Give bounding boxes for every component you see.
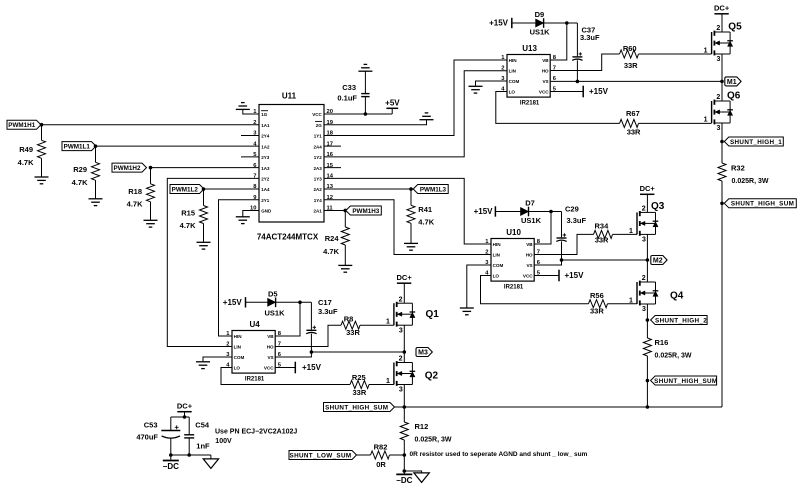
- svg-text:Use PN ECJ−2VC2A102J: Use PN ECJ−2VC2A102J: [215, 429, 297, 436]
- wire U10 COM to ground: [467, 265, 491, 308]
- junction C54 bottom: [187, 453, 191, 457]
- svg-text:R41: R41: [418, 205, 432, 214]
- wire to U4 VB: [275, 302, 300, 336]
- wire R60 to Q5 gate: [639, 53, 712, 55]
- svg-text:LIN: LIN: [493, 253, 501, 258]
- wire tag to R82: [357, 454, 371, 456]
- svg-text:−DC: −DC: [163, 462, 179, 471]
- svg-text:1A3: 1A3: [261, 166, 270, 171]
- ground (U4 COM): [196, 362, 210, 369]
- resistor R12 0.025R 3W: [400, 422, 408, 440]
- svg-text:+15V: +15V: [565, 271, 585, 280]
- wire U11 pin16 1Y2 to U13 LIN: [324, 71, 507, 157]
- svg-text:470uF: 470uF: [136, 432, 158, 441]
- svg-text:U13: U13: [522, 44, 537, 53]
- svg-text:LIN: LIN: [509, 69, 517, 74]
- svg-text:COM: COM: [493, 263, 504, 268]
- power +15V (U10 VCC): [558, 270, 560, 282]
- junction SHUNT_HIGH_SUM mid: [646, 379, 650, 383]
- wire to U13 VB: [551, 23, 567, 60]
- svg-text:4.7K: 4.7K: [72, 178, 88, 187]
- wire U4 HO to R8: [275, 325, 341, 346]
- svg-text:2: 2: [399, 296, 403, 303]
- wire U4 VCC: [275, 367, 295, 369]
- wire D7 to C29: [529, 211, 562, 213]
- wire: [344, 210, 346, 227]
- net tag PWM1H1: [7, 120, 41, 129]
- junction VB node U4: [298, 301, 302, 305]
- svg-text:2A1: 2A1: [314, 209, 323, 214]
- svg-text:DC+: DC+: [177, 402, 193, 411]
- wire: [344, 245, 346, 265]
- svg-text:R56: R56: [590, 291, 604, 300]
- wire U11 pin14 1Y3 to U10 HIN: [324, 178, 491, 244]
- svg-text:IR2181: IR2181: [504, 284, 524, 290]
- svg-text:PWM1H3: PWM1H3: [352, 208, 379, 215]
- svg-text:SHUNT_HIGH_2: SHUNT_HIGH_2: [655, 317, 707, 324]
- svg-text:IR2181: IR2181: [245, 376, 265, 382]
- resistor R82 0R: [371, 451, 390, 459]
- svg-text:1: 1: [386, 319, 390, 326]
- svg-text:1: 1: [704, 116, 708, 123]
- resistor R32 0.025R 3W: [718, 163, 726, 181]
- svg-text:Q3: Q3: [651, 201, 665, 212]
- svg-text:2Y1: 2Y1: [261, 198, 270, 203]
- svg-text:2: 2: [226, 342, 229, 348]
- svg-text:2: 2: [716, 25, 720, 32]
- svg-text:R82: R82: [374, 442, 388, 451]
- svg-text:C53: C53: [144, 420, 158, 429]
- junction C53 bottom: [169, 453, 173, 457]
- wire +15V to D5: [246, 301, 268, 303]
- resistor R67 33R: [620, 119, 639, 127]
- wire M2 to Q4 drain: [646, 260, 648, 282]
- wire: [403, 440, 405, 455]
- svg-text:GND: GND: [261, 209, 272, 214]
- svg-text:SHUNT_LOW_SUM: SHUNT_LOW_SUM: [290, 452, 352, 459]
- junction C17/VS: [310, 350, 314, 354]
- junction PWM1H3/R24: [344, 209, 348, 213]
- wire U11 pin7 2Y2 to U4 LIN: [167, 178, 259, 346]
- svg-text:4.7K: 4.7K: [18, 158, 34, 167]
- wire: [184, 412, 186, 417]
- svg-text:PWM1L1: PWM1L1: [64, 143, 91, 150]
- wire pin3 stub 2Y4: [241, 134, 259, 136]
- resistor R60 33R: [620, 50, 639, 58]
- capacitor C33 0.1uF: [364, 97, 366, 114]
- gate driver U4 (IR2181): [232, 331, 275, 374]
- svg-text:3.3uF: 3.3uF: [567, 216, 587, 225]
- svg-text:4.7K: 4.7K: [323, 247, 339, 256]
- ground (triangle, C54): [203, 459, 218, 469]
- svg-text:DC+: DC+: [396, 273, 412, 282]
- net tag SHUNT_HIGH_2: [651, 316, 708, 325]
- wire U13 COM to ground: [476, 81, 508, 86]
- wire U4 LO to R25: [221, 368, 350, 385]
- svg-text:+15V: +15V: [302, 363, 322, 372]
- svg-text:1A1: 1A1: [261, 123, 270, 128]
- junction R12/R82: [403, 453, 407, 457]
- net tag PWM1H3: [346, 206, 382, 215]
- power +5V: [391, 108, 393, 114]
- capacitor C17 3.3uF: [306, 329, 316, 331]
- wire R25 to Q2 gate: [369, 384, 394, 386]
- wire R34 to Q3 gate: [613, 233, 638, 235]
- wire: [95, 180, 97, 198]
- svg-text:1Y3: 1Y3: [314, 177, 323, 182]
- svg-text:33R: 33R: [353, 388, 367, 397]
- svg-text:HIN: HIN: [234, 334, 243, 339]
- svg-text:VCC: VCC: [264, 366, 274, 371]
- wire: [403, 407, 405, 422]
- wire to analog ground: [404, 471, 421, 473]
- svg-text:HO: HO: [526, 253, 533, 258]
- wire: [561, 212, 563, 238]
- svg-text:33R: 33R: [595, 236, 609, 245]
- svg-text:100V: 100V: [215, 438, 232, 445]
- ground (R24): [338, 265, 352, 272]
- svg-text:LO: LO: [509, 90, 516, 95]
- svg-text:1A2: 1A2: [261, 144, 270, 149]
- overbar on 1G: [261, 110, 268, 112]
- svg-text:2: 2: [642, 206, 646, 213]
- svg-text:3: 3: [399, 387, 403, 394]
- wire M3 to Q2 drain: [403, 352, 405, 363]
- wire: [403, 455, 405, 471]
- svg-text:2A3: 2A3: [314, 166, 323, 171]
- svg-text:U4: U4: [249, 320, 260, 329]
- wire PWM1H2 to U11 pin6: [151, 167, 260, 169]
- svg-text:Q5: Q5: [728, 22, 742, 33]
- svg-text:LO: LO: [493, 274, 500, 279]
- gate driver U10 (IR2181): [491, 239, 534, 282]
- wire U10 HO to R34: [534, 234, 593, 254]
- svg-text:3: 3: [642, 306, 646, 313]
- ground (R41): [404, 243, 418, 250]
- svg-text:2: 2: [399, 356, 403, 363]
- wire PWM1L2 to U11 pin8: [204, 188, 260, 190]
- svg-text:US1K: US1K: [530, 28, 551, 37]
- gate driver U13 (IR2181): [507, 55, 550, 98]
- wire U13 VCC: [551, 91, 584, 93]
- wire +15V to D7: [495, 211, 520, 213]
- junction SHUNT_HIGH_SUM right: [720, 202, 724, 206]
- wire pin5 stub 2Y3: [241, 156, 259, 158]
- wire DC+ to Q3 drain: [646, 194, 648, 212]
- svg-text:VCC: VCC: [523, 274, 533, 279]
- ground (R18): [144, 220, 158, 227]
- svg-text:0.025R, 3W: 0.025R, 3W: [732, 178, 769, 185]
- svg-text:C17: C17: [318, 298, 332, 307]
- power +15V (D5): [245, 297, 247, 307]
- wire: [410, 189, 412, 205]
- net tag PWM1L1: [62, 142, 96, 151]
- svg-text:VCC: VCC: [539, 90, 549, 95]
- ground (pin 10 GND): [236, 217, 250, 224]
- wire: [210, 455, 212, 459]
- svg-text:33R: 33R: [346, 328, 360, 337]
- wire U13 LO to R67: [496, 92, 620, 124]
- wire Q6 source: [721, 123, 723, 142]
- svg-text:PWM1H2: PWM1H2: [114, 165, 141, 172]
- svg-text:1: 1: [629, 297, 633, 304]
- svg-text:3.3uF: 3.3uF: [318, 307, 338, 316]
- svg-text:3: 3: [717, 125, 721, 132]
- svg-text:PWM1H1: PWM1H1: [8, 122, 35, 129]
- net tag PWM1L2: [170, 185, 204, 194]
- junction rail: [646, 405, 650, 409]
- power -DC (C53): [163, 460, 179, 462]
- net tag SHUNT_HIGH_SUM: [324, 403, 395, 412]
- svg-text:2A4: 2A4: [314, 144, 323, 149]
- wire R56 to Q4 gate: [608, 303, 638, 305]
- svg-text:D5: D5: [268, 289, 278, 298]
- svg-text:R8: R8: [344, 314, 354, 323]
- wire Q4 chain to rail: [646, 381, 648, 408]
- svg-text:HO: HO: [542, 69, 549, 74]
- wire cap top bus: [171, 416, 189, 418]
- svg-text:1Y4: 1Y4: [314, 198, 323, 203]
- ground (triangle AGND): [414, 473, 429, 483]
- wire: [576, 23, 578, 56]
- resistor R16 0.025R 3W: [643, 338, 651, 356]
- svg-text:M3: M3: [418, 349, 428, 356]
- svg-text:C33: C33: [342, 83, 356, 92]
- power +15V (D7): [494, 206, 496, 216]
- svg-text:U11: U11: [282, 92, 297, 101]
- wire: [721, 142, 723, 164]
- svg-text:VS: VS: [542, 79, 548, 84]
- wire: [150, 168, 152, 184]
- svg-text:HO: HO: [267, 345, 274, 350]
- wire +15V to D9: [512, 22, 536, 24]
- wire R67 to Q6 gate: [639, 122, 712, 124]
- svg-text:R32: R32: [731, 164, 745, 173]
- svg-text:0R: 0R: [376, 460, 386, 469]
- svg-text:2Y2: 2Y2: [261, 177, 270, 182]
- wire Q2 source to rail: [403, 385, 405, 408]
- svg-text:+15V: +15V: [489, 19, 509, 28]
- power DC+ (Q3): [640, 193, 654, 195]
- svg-text:R49: R49: [19, 145, 33, 154]
- wire: [95, 146, 97, 162]
- svg-text:4.7K: 4.7K: [418, 218, 434, 227]
- junction PWM1H1/R49: [40, 123, 44, 127]
- capacitor C37 3.3uF: [572, 56, 582, 58]
- transistor Q6: [712, 100, 733, 125]
- net tag SHUNT_LOW_SUM: [289, 451, 357, 460]
- wire pin1 to ground: [243, 109, 259, 114]
- svg-text:3: 3: [399, 327, 403, 334]
- svg-text:2Y4: 2Y4: [261, 134, 270, 139]
- wire: [646, 320, 648, 338]
- svg-text:DC+: DC+: [640, 184, 656, 193]
- junction PWM1L3/R41: [409, 187, 413, 191]
- wire U11 pin18 1Y1 to U13 HIN: [324, 60, 507, 135]
- resistor R18 4.7K: [147, 184, 155, 202]
- wire VS to M3 node: [311, 351, 404, 353]
- wire Q1 source to M3: [403, 325, 405, 352]
- svg-text:M1: M1: [727, 79, 737, 86]
- junction C37/VS: [576, 80, 580, 84]
- power +15V (U13 VCC): [582, 86, 584, 98]
- svg-text:IR2181: IR2181: [520, 100, 540, 106]
- svg-text:−DC: −DC: [396, 476, 412, 485]
- svg-text:Q2: Q2: [425, 371, 439, 382]
- net tag SHUNT_HIGH_SUM: [724, 199, 796, 208]
- svg-text:Q4: Q4: [670, 290, 684, 301]
- wire M1 to Q6 drain: [721, 81, 723, 101]
- svg-text:U10: U10: [506, 228, 521, 237]
- wire D5 to C17: [276, 301, 312, 303]
- wire: [41, 158, 43, 176]
- wire U10 VCC: [534, 275, 559, 277]
- svg-text:HIN: HIN: [493, 242, 502, 247]
- svg-text:R12: R12: [415, 422, 429, 431]
- svg-text:VB: VB: [267, 334, 274, 339]
- ground (R15): [197, 242, 211, 249]
- resistor R49 4.7K: [38, 140, 46, 158]
- svg-text:0.025R, 3W: 0.025R, 3W: [415, 436, 452, 443]
- ground (pin 19): [420, 113, 434, 120]
- junction VB node: [565, 21, 569, 25]
- wire PWM1L1 to U11 pin4: [96, 145, 260, 147]
- junction DC+ top: [183, 415, 187, 419]
- capacitor C54 1nF: [188, 417, 190, 435]
- svg-text:D9: D9: [535, 10, 545, 19]
- ground (U10 COM): [460, 308, 474, 315]
- wire: [310, 302, 312, 329]
- wire: [203, 224, 205, 242]
- net tag M1: [725, 77, 741, 86]
- resistor R56 33R: [589, 300, 608, 308]
- wire pin15 stub 2A3: [324, 167, 341, 169]
- svg-text:1: 1: [386, 378, 390, 385]
- ground (R29): [89, 199, 103, 206]
- svg-text:2Y3: 2Y3: [261, 155, 270, 160]
- svg-text:LIN: LIN: [234, 345, 242, 350]
- diode D7 US1K: [521, 208, 529, 216]
- wire: [150, 202, 152, 220]
- wire U4 COM to ground: [203, 357, 232, 361]
- svg-text:R67: R67: [626, 109, 640, 118]
- svg-text:VCC: VCC: [312, 112, 322, 117]
- svg-text:SHUNT_HIGH_SUM: SHUNT_HIGH_SUM: [654, 378, 717, 385]
- wire U13 VS to M1 node: [551, 80, 722, 82]
- svg-text:US1K: US1K: [521, 216, 542, 225]
- svg-text:+15V: +15V: [223, 298, 243, 307]
- svg-text:R15: R15: [181, 209, 195, 218]
- wire U11 pin11 2A1 to PWM1H3: [324, 209, 346, 211]
- svg-text:4.7K: 4.7K: [127, 199, 143, 208]
- svg-text:M2: M2: [653, 257, 663, 264]
- wire PWM1H1 to U11 pin2: [42, 124, 260, 126]
- svg-text:+15V: +15V: [474, 207, 494, 216]
- junction VB node U10: [549, 210, 553, 214]
- junction PWM1L2/R15: [202, 187, 206, 191]
- ground (pin 1 1G): [236, 103, 250, 110]
- svg-text:R25: R25: [352, 373, 366, 382]
- svg-text:C54: C54: [195, 421, 210, 430]
- resistor R8 33R: [341, 321, 360, 329]
- junction PWM1H2/R18: [149, 166, 153, 170]
- wire C37 to VS: [576, 60, 578, 81]
- svg-text:LO: LO: [234, 366, 241, 371]
- wire SHUNT_HIGH_SUM rail: [404, 406, 722, 408]
- ground (C33): [358, 64, 372, 71]
- svg-text:R34: R34: [595, 222, 610, 231]
- net tag M2: [651, 256, 667, 265]
- svg-text:33R: 33R: [627, 128, 641, 137]
- svg-text:0.025R, 3W: 0.025R, 3W: [655, 353, 692, 360]
- svg-text:2A2: 2A2: [314, 187, 323, 192]
- svg-text:Q6: Q6: [727, 91, 741, 102]
- svg-text:R24: R24: [325, 234, 340, 243]
- wire U11 pin13 2A2 to PWM1L3: [324, 188, 413, 190]
- wire U11 pin19 2G to ground: [324, 120, 427, 125]
- svg-text:PWM1L2: PWM1L2: [172, 186, 199, 193]
- svg-text:HIN: HIN: [509, 58, 518, 63]
- junction SHUNT_HIGH_1: [720, 140, 724, 144]
- ic U11 74ACT244MTCX buffer: [259, 105, 324, 223]
- wire cap bottom bus: [171, 454, 211, 456]
- svg-text:4.7K: 4.7K: [180, 221, 196, 230]
- wire U11 pin12 1Y4 to U10 LIN: [324, 200, 491, 255]
- svg-text:PWM1L3: PWM1L3: [420, 186, 447, 193]
- power DC+ (C53/C54): [177, 411, 191, 413]
- svg-text:SHUNT_HIGH_SUM: SHUNT_HIGH_SUM: [731, 201, 794, 208]
- resistor R29 4.7K: [92, 162, 100, 180]
- svg-text:3: 3: [717, 56, 721, 63]
- wire U4 VS jog: [275, 352, 311, 357]
- wire: [403, 471, 405, 474]
- svg-text:VB: VB: [542, 58, 549, 63]
- overbar on 2G: [315, 120, 322, 122]
- svg-text:1: 1: [704, 47, 708, 54]
- wire: [410, 223, 412, 243]
- wire U13 HO to R60: [551, 54, 620, 71]
- svg-text:DC+: DC+: [714, 4, 730, 13]
- svg-text:R16: R16: [655, 338, 669, 347]
- capacitor C53 470uF: [170, 417, 172, 430]
- svg-text:2: 2: [642, 275, 646, 282]
- svg-text:+5V: +5V: [385, 98, 400, 107]
- junction C29/VS: [560, 258, 564, 262]
- svg-text:33R: 33R: [590, 307, 604, 316]
- transistor Q2: [394, 361, 415, 386]
- svg-text:74ACT244MTCX: 74ACT244MTCX: [257, 233, 319, 242]
- wire U10 VS jog: [534, 260, 561, 265]
- svg-text:1G: 1G: [261, 112, 268, 117]
- junction C33: [364, 112, 368, 116]
- wire C29 to M2 line: [561, 241, 563, 260]
- diode D9 US1K: [536, 19, 544, 27]
- diode D5 US1K: [268, 298, 276, 306]
- power DC+ (Q1): [397, 282, 411, 284]
- power -DC (shunt): [396, 473, 412, 475]
- net tag SHUNT_HIGH_1: [724, 137, 783, 146]
- transistor Q3: [637, 211, 658, 236]
- svg-text:3: 3: [642, 237, 646, 244]
- wire: [646, 356, 648, 381]
- svg-text:0.1uF: 0.1uF: [337, 93, 357, 102]
- wire pin17 stub 2A4: [324, 145, 341, 147]
- svg-text:Q1: Q1: [426, 309, 440, 320]
- wire Q3 source to M2: [646, 234, 648, 260]
- ground (R49): [35, 177, 49, 184]
- svg-text:R18: R18: [128, 187, 142, 196]
- wire: [41, 125, 43, 141]
